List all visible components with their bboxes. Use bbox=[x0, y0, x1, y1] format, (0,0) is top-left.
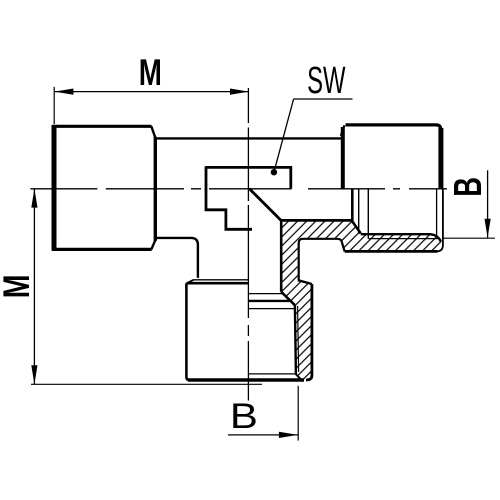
right port right end face upper bbox=[438, 128, 443, 189]
dimension B bottom bbox=[228, 386, 298, 441]
left port left end face bbox=[52, 125, 57, 251]
arrow left bbox=[54, 89, 73, 95]
bottom port thread chamfer bbox=[281, 292, 295, 305]
SW hex silhouette top bbox=[206, 167, 291, 188]
dimension line bbox=[487, 170, 489, 237]
step chamfer between right port and body bbox=[342, 241, 345, 251]
right port thread major line bbox=[368, 238, 437, 240]
bottom port shoulder thick line bbox=[186, 282, 248, 285]
center body top line bbox=[155, 137, 341, 139]
hatched section material bbox=[281, 220, 443, 380]
horizontal centerline bbox=[30, 188, 447, 190]
svg-text:M: M bbox=[139, 51, 162, 93]
bottom port bore bbox=[280, 220, 283, 292]
right port thread edge line 2 bbox=[367, 189, 369, 239]
bottom port thread minor wall bbox=[295, 305, 296, 375]
bottom port bottom end face bbox=[188, 378, 304, 381]
SW hex silhouette steps bbox=[206, 166, 252, 229]
extension line bbox=[297, 386, 299, 441]
left port outline bbox=[53, 125, 441, 380]
dimension B right bbox=[444, 170, 495, 238]
svg-text:SW: SW bbox=[307, 58, 345, 101]
leader dot bbox=[271, 169, 277, 175]
bottom port shoulder thin line bbox=[193, 279, 249, 281]
left port bottom edge bbox=[53, 248, 152, 251]
right port top edge bbox=[346, 125, 441, 130]
bottom port outer wall right bbox=[306, 284, 312, 380]
bottom port shoulder chamfer bbox=[187, 280, 194, 283]
junction cone bbox=[249, 189, 281, 221]
leader diagonal bbox=[274, 99, 294, 172]
left port top edge bbox=[53, 125, 152, 128]
right port bottom edge bbox=[345, 250, 438, 253]
extension line bbox=[444, 237, 495, 239]
arrow down bbox=[31, 365, 37, 384]
SW leader bbox=[271, 99, 353, 175]
dimension M top bbox=[54, 87, 249, 124]
svg-text:M: M bbox=[0, 275, 38, 299]
dimension M left bbox=[31, 189, 262, 385]
arrow down bbox=[485, 219, 491, 238]
right port end face lower bbox=[437, 189, 443, 252]
dimension line bbox=[54, 91, 249, 93]
right port thread chamfer bbox=[352, 221, 360, 233]
bottom port thread start line 1 bbox=[249, 293, 284, 295]
bottom port thread start line 3 bbox=[249, 308, 295, 310]
right port end chamfer edge bbox=[436, 189, 438, 236]
svg-text:B: B bbox=[230, 397, 258, 436]
bottom port end chamfer diag bbox=[296, 374, 302, 380]
right port bore step face bbox=[351, 189, 354, 222]
right port thread edge line 1 bbox=[358, 189, 360, 234]
bottom port shoulder chamfer right bbox=[298, 280, 312, 284]
bottom port thread major wall bbox=[298, 306, 299, 372]
bottom port hex left edge bbox=[186, 283, 190, 380]
right port bore line bbox=[281, 219, 352, 222]
vertical centerline bbox=[247, 88, 249, 401]
dimension line bbox=[33, 189, 35, 385]
left port bottom-right chamfer bbox=[151, 240, 155, 249]
center body bottom-left line with fillet bbox=[155, 238, 198, 278]
centerlines bbox=[30, 88, 447, 401]
left port right edge bbox=[154, 137, 157, 241]
bottom port end chamfer line bbox=[249, 373, 296, 375]
arrow up bbox=[31, 189, 37, 208]
left port top-right chamfer bbox=[151, 126, 155, 137]
arrow right bbox=[279, 432, 298, 438]
section outlines bbox=[249, 189, 443, 380]
bottom port thread start line 2 bbox=[249, 300, 292, 302]
svg-text:B: B bbox=[447, 177, 490, 197]
right port left face chamfer bbox=[341, 125, 345, 136]
leader underline bbox=[294, 98, 353, 100]
extension line bottom bbox=[31, 383, 262, 385]
arrow right bbox=[230, 89, 249, 95]
center body outer lower line bbox=[299, 239, 342, 280]
right port thread minor line bbox=[361, 234, 441, 241]
right port left face bbox=[341, 127, 345, 189]
extension line left bbox=[53, 87, 55, 124]
dimension line bbox=[228, 434, 298, 436]
